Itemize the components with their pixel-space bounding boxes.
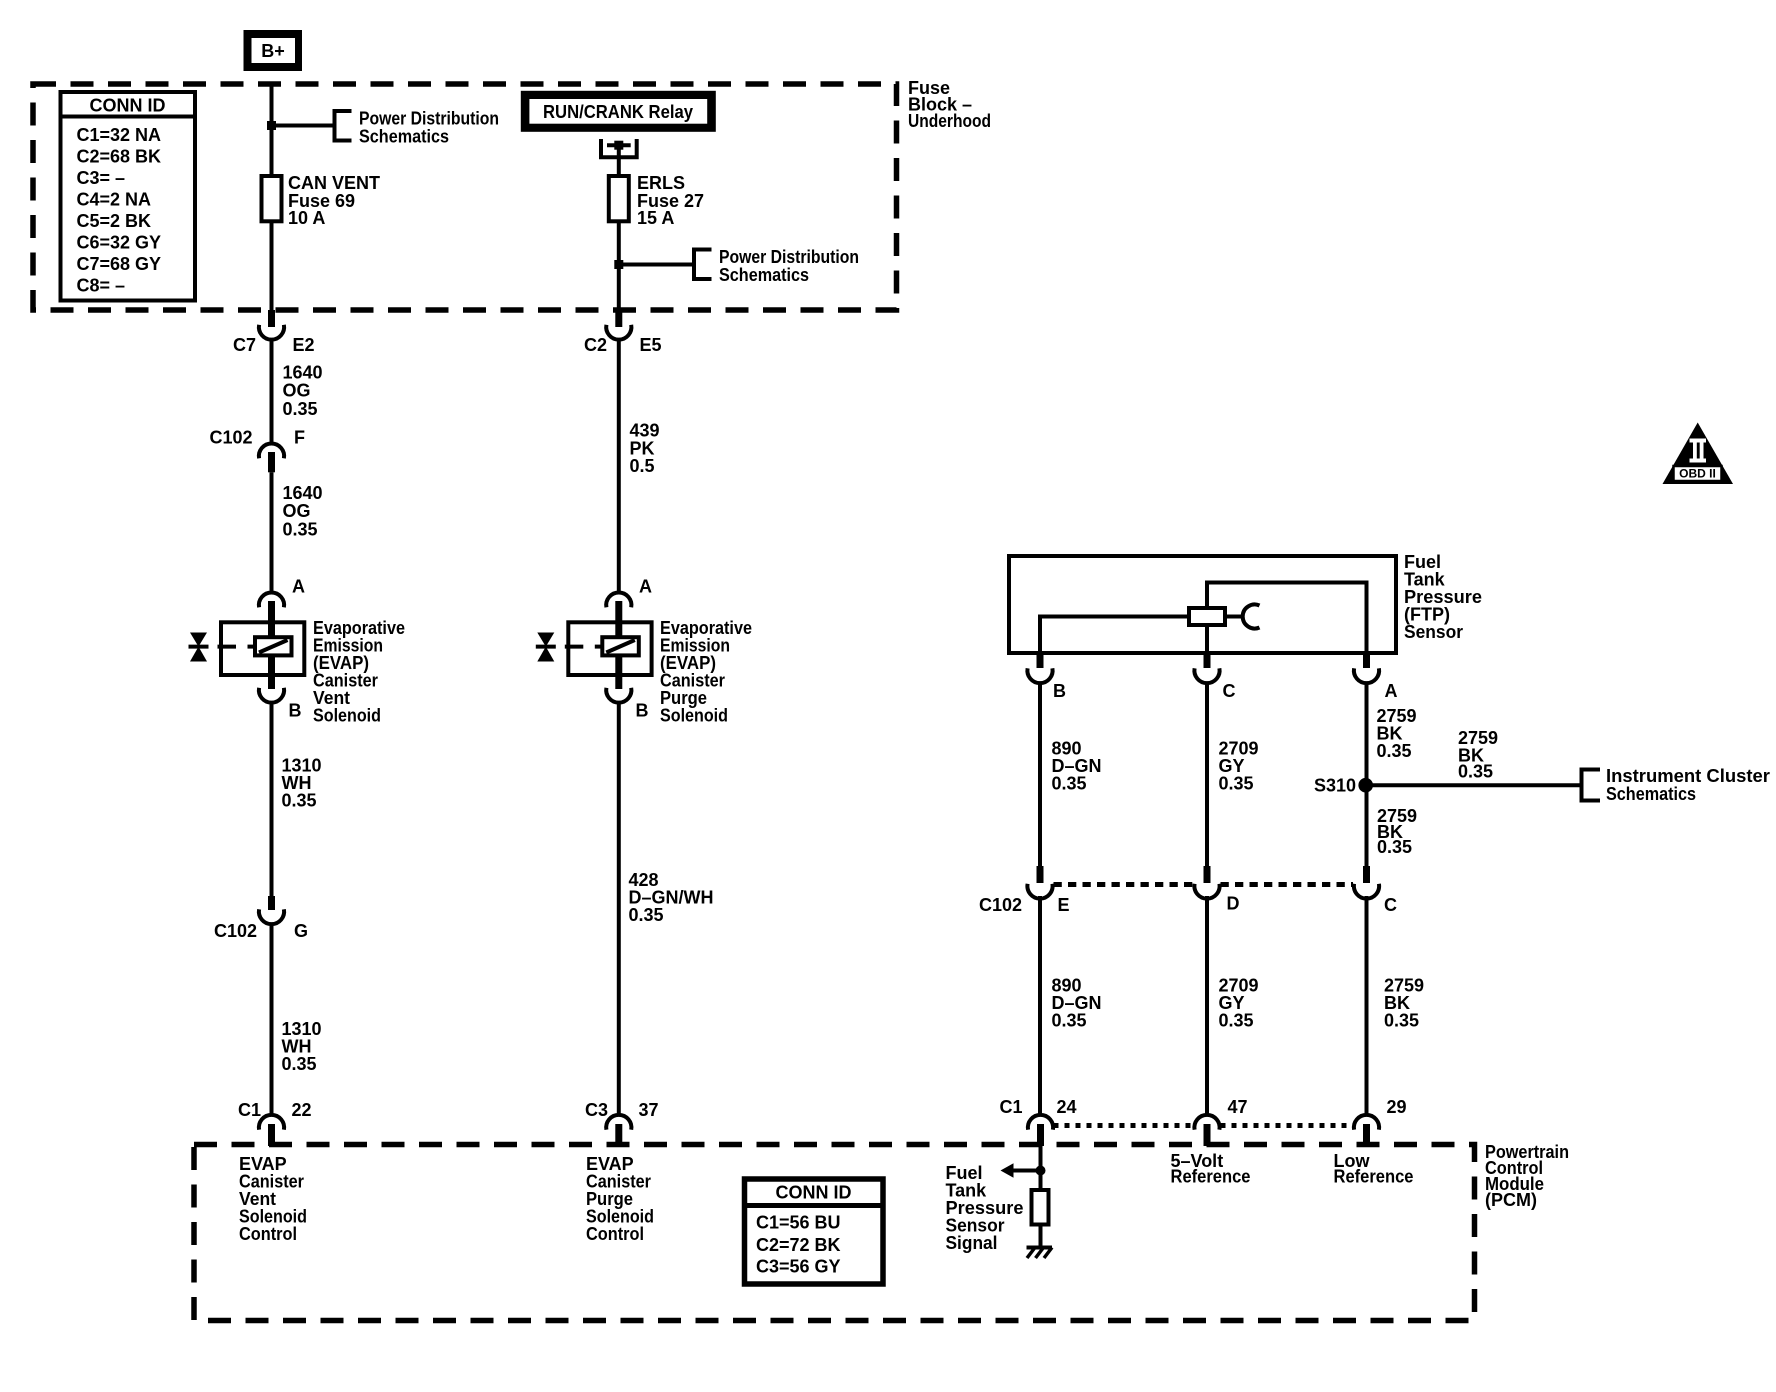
svg-text:0.35: 0.35 <box>1384 1011 1419 1031</box>
svg-text:22: 22 <box>292 1100 312 1120</box>
svg-text:Control: Control <box>239 1224 297 1244</box>
CONN ID table (PCM) <box>745 1179 884 1284</box>
dotted link pins 24-47-29 <box>1054 1123 1194 1128</box>
svg-text:CONN ID: CONN ID <box>776 1183 852 1203</box>
svg-text:C: C <box>1223 681 1236 701</box>
svg-text:1640: 1640 <box>283 483 323 503</box>
wire 428 D-GN/WH <box>617 702 621 1117</box>
svg-text:C3=56 GY: C3=56 GY <box>756 1257 841 1277</box>
connector C102/E <box>1037 866 1044 883</box>
wire fuse 27 down <box>617 221 621 310</box>
label low reference <box>1334 1151 1414 1187</box>
FTP internal wiring <box>1040 617 1189 654</box>
svg-text:C7: C7 <box>233 335 256 355</box>
svg-text:A: A <box>1385 681 1398 701</box>
svg-text:Power Distribution: Power Distribution <box>359 109 499 129</box>
FTP sensing element <box>1189 608 1225 625</box>
B+ power symbol <box>244 30 303 71</box>
svg-text:Control: Control <box>586 1224 644 1244</box>
svg-text:0.35: 0.35 <box>1219 774 1254 794</box>
label EVAP canister vent solenoid control <box>239 1154 307 1244</box>
wire relay to fuse 27 <box>617 145 621 176</box>
svg-text:B: B <box>289 701 302 721</box>
svg-text:B: B <box>636 701 649 721</box>
wire 2759 BK below S310 <box>1377 806 1417 857</box>
svg-text:F: F <box>294 428 305 448</box>
svg-text:OG: OG <box>283 501 311 521</box>
OBD II symbol <box>1663 423 1734 485</box>
wire 2709 GY upper <box>1205 682 1209 867</box>
wire B+ down to fuse 69 <box>270 85 274 176</box>
svg-text:C7=68 GY: C7=68 GY <box>77 254 162 274</box>
arrow to fuel tank pressure sensor signal <box>1012 1169 1041 1173</box>
FTP pin C <box>1204 653 1211 668</box>
FTP pin A <box>1363 653 1370 668</box>
wire 890 D-GN lower <box>1038 896 1042 1116</box>
svg-text:0.35: 0.35 <box>1219 1011 1254 1031</box>
ground symbol <box>1027 1248 1053 1259</box>
svg-text:Schematics: Schematics <box>359 127 449 147</box>
off-page bracket power distribution 2 <box>694 250 712 280</box>
svg-text:0.35: 0.35 <box>1052 1011 1087 1031</box>
fuse ERLS Fuse 27 15A <box>609 176 629 221</box>
svg-text:Schematics: Schematics <box>719 265 809 285</box>
svg-text:Signal: Signal <box>946 1233 998 1253</box>
svg-text:G: G <box>294 921 308 941</box>
svg-text:29: 29 <box>1387 1097 1407 1117</box>
svg-text:E: E <box>1058 895 1070 915</box>
svg-text:C2: C2 <box>584 335 607 355</box>
svg-text:C3: C3 <box>585 1100 608 1120</box>
svg-text:C1=56 BU: C1=56 BU <box>756 1213 841 1233</box>
svg-text:37: 37 <box>639 1100 659 1120</box>
wire 2709 GY lower <box>1205 896 1209 1116</box>
svg-text:C8= –: C8= – <box>77 276 126 296</box>
fuse block underhood dashed box <box>33 84 897 310</box>
wire 1310 WH lower <box>270 923 274 1116</box>
label PCM <box>1485 1142 1569 1210</box>
wire pin 24 into PCM <box>1039 1146 1043 1190</box>
label EVAP canister purge solenoid control <box>586 1154 654 1244</box>
svg-text:1640: 1640 <box>283 363 323 383</box>
svg-text:Reference: Reference <box>1334 1167 1414 1187</box>
svg-text:15 A: 15 A <box>637 208 674 228</box>
svg-text:Instrument Cluster: Instrument Cluster <box>1606 766 1770 786</box>
wire 1310 WH <box>270 702 274 897</box>
wire branch to power distribution 2 <box>619 263 694 267</box>
svg-text:0.35: 0.35 <box>629 905 664 925</box>
off-page bracket instrument cluster <box>1582 770 1601 801</box>
svg-text:Sensor: Sensor <box>1404 622 1463 642</box>
svg-text:A: A <box>639 577 652 597</box>
svg-text:C1=32 NA: C1=32 NA <box>77 125 162 145</box>
svg-text:C2=68 BK: C2=68 BK <box>77 147 162 167</box>
wire 2759 BK lower <box>1365 896 1369 1116</box>
svg-text:0.35: 0.35 <box>1458 762 1493 782</box>
label Fuse Block - Underhood <box>908 78 991 131</box>
svg-text:Solenoid: Solenoid <box>660 706 728 726</box>
svg-text:(PCM): (PCM) <box>1485 1190 1537 1210</box>
connector C102/G <box>268 896 275 910</box>
svg-text:C102: C102 <box>979 895 1022 915</box>
svg-text:C102: C102 <box>214 921 257 941</box>
svg-text:0.5: 0.5 <box>630 456 655 476</box>
svg-text:RUN/CRANK Relay: RUN/CRANK Relay <box>543 102 693 122</box>
svg-text:Schematics: Schematics <box>1606 784 1696 804</box>
resistor in PCM <box>1032 1190 1049 1225</box>
svg-text:E5: E5 <box>640 335 662 355</box>
solenoid pin B purge <box>606 688 631 703</box>
svg-text:S310: S310 <box>1314 776 1356 796</box>
relay output terminal pedestal <box>601 139 637 157</box>
svg-text:C102: C102 <box>209 428 252 448</box>
svg-text:0.35: 0.35 <box>283 399 318 419</box>
svg-text:C6=32 GY: C6=32 GY <box>77 233 162 253</box>
svg-text:C1: C1 <box>999 1097 1022 1117</box>
svg-text:C4=2 NA: C4=2 NA <box>77 190 152 210</box>
RUN/CRANK relay box <box>521 91 716 132</box>
connector C7/E2 <box>268 310 275 327</box>
wire 439 PK <box>617 339 621 594</box>
svg-text:Power Distribution: Power Distribution <box>719 247 859 267</box>
svg-text:C1: C1 <box>238 1100 261 1120</box>
svg-text:47: 47 <box>1228 1097 1248 1117</box>
wire 1640 OG lower <box>270 472 274 593</box>
dashed harness line C102 <box>1054 882 1194 887</box>
svg-text:10 A: 10 A <box>288 208 325 228</box>
svg-text:C: C <box>1384 895 1397 915</box>
svg-text:0.35: 0.35 <box>1052 774 1087 794</box>
junction on sensor signal <box>1036 1166 1046 1176</box>
fuse CAN VENT Fuse 69 10A <box>262 176 282 221</box>
svg-text:0.35: 0.35 <box>283 520 318 540</box>
svg-text:Underhood: Underhood <box>908 111 991 131</box>
solenoid pin B vent <box>259 688 284 703</box>
svg-text:D: D <box>1227 894 1240 914</box>
wire 1640 OG <box>270 339 274 445</box>
svg-text:0.35: 0.35 <box>282 1054 317 1074</box>
wire 890 D-GN upper <box>1038 682 1042 867</box>
PCM dashed box <box>194 1145 1475 1321</box>
svg-text:A: A <box>292 577 305 597</box>
svg-text:439: 439 <box>630 421 660 441</box>
svg-text:C3= –: C3= – <box>77 168 126 188</box>
wire S310 to instrument cluster <box>1366 783 1582 787</box>
svg-text:B+: B+ <box>261 41 285 61</box>
EVAP canister purge solenoid <box>536 622 652 689</box>
CONN ID table (fuse block) <box>61 92 196 301</box>
junction node on ERLS feed <box>614 260 623 269</box>
wire resistor to ground <box>1039 1225 1043 1248</box>
FTP pin B <box>1037 653 1044 668</box>
svg-text:0.35: 0.35 <box>1377 837 1412 857</box>
svg-text:Reference: Reference <box>1171 1167 1251 1187</box>
svg-text:ERLS: ERLS <box>637 173 685 193</box>
svg-text:0.35: 0.35 <box>1377 741 1412 761</box>
svg-text:B: B <box>1053 681 1066 701</box>
svg-text:OG: OG <box>283 381 311 401</box>
wire branch to power distribution <box>272 124 335 128</box>
splice S310 <box>1358 778 1373 793</box>
FTP sensor box <box>1009 556 1396 653</box>
connector C2/E5 <box>615 310 622 327</box>
junction node on B+ feed <box>267 121 276 130</box>
connector C102/C <box>1363 866 1370 883</box>
svg-text:OBD II: OBD II <box>1679 467 1716 481</box>
wire 2759 BK upper <box>1365 682 1369 867</box>
svg-text:C5=2 BK: C5=2 BK <box>77 211 152 231</box>
svg-text:24: 24 <box>1057 1097 1077 1117</box>
svg-text:CONN ID: CONN ID <box>90 96 166 116</box>
svg-text:CAN VENT: CAN VENT <box>288 173 380 193</box>
label 5-volt reference <box>1171 1151 1251 1187</box>
svg-text:0.35: 0.35 <box>282 791 317 811</box>
wire fuse 69 to connector C7 <box>270 221 274 310</box>
label fuel tank pressure sensor signal <box>946 1163 1024 1253</box>
svg-text:Solenoid: Solenoid <box>313 706 381 726</box>
connector C102/D <box>1204 866 1211 883</box>
svg-text:E2: E2 <box>293 335 315 355</box>
off-page bracket power distribution 1 <box>335 111 352 141</box>
EVAP canister vent solenoid <box>189 622 305 689</box>
svg-text:C2=72 BK: C2=72 BK <box>756 1235 841 1255</box>
